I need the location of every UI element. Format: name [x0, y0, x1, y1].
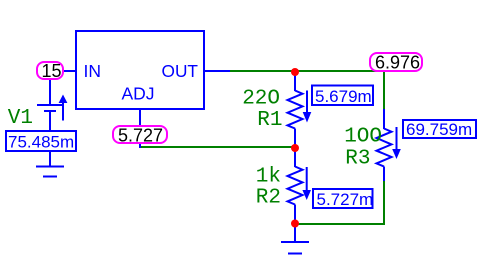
svg-text:5.727m: 5.727m — [317, 190, 374, 209]
svg-text:R2: R2 — [256, 187, 281, 210]
svg-text:IN: IN — [84, 61, 102, 81]
svg-text:1k: 1k — [256, 166, 281, 189]
svg-text:5.679m: 5.679m — [315, 87, 372, 106]
svg-text:ADJ: ADJ — [122, 84, 155, 104]
svg-text:R3: R3 — [345, 148, 370, 171]
svg-text:OUT: OUT — [162, 61, 199, 81]
svg-text:V1: V1 — [8, 107, 33, 130]
svg-text:R1: R1 — [257, 109, 282, 132]
svg-text:6.976: 6.976 — [375, 53, 420, 73]
svg-text:5.727: 5.727 — [118, 126, 163, 146]
svg-text:75.485m: 75.485m — [8, 133, 74, 152]
svg-text:69.759m: 69.759m — [406, 120, 472, 139]
svg-text:22O: 22O — [242, 88, 280, 111]
svg-text:15: 15 — [41, 61, 61, 81]
svg-text:1OO: 1OO — [344, 126, 382, 149]
